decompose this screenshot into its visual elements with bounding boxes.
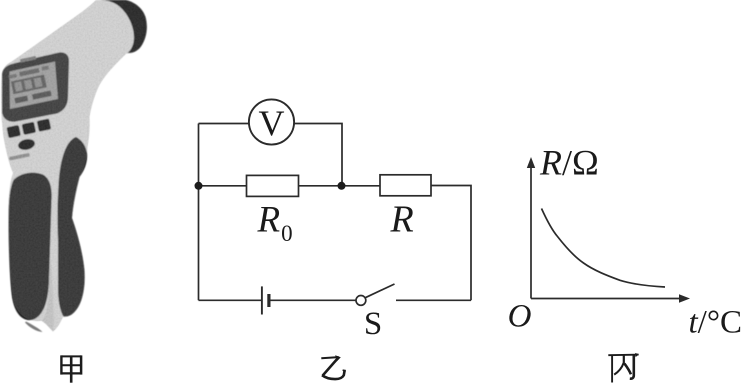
svg-text:V: V bbox=[259, 103, 285, 143]
svg-text:S: S bbox=[364, 306, 382, 342]
svg-text:R: R bbox=[390, 199, 414, 241]
svg-text:R0: R0 bbox=[257, 200, 293, 247]
svg-text:R/Ω: R/Ω bbox=[539, 142, 599, 182]
svg-text:t/°C: t/°C bbox=[689, 305, 743, 341]
svg-text:O: O bbox=[508, 299, 532, 335]
